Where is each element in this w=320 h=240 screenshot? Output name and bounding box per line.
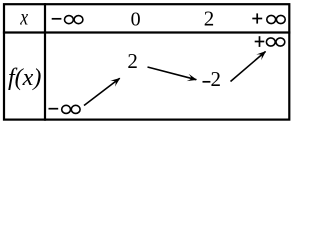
svg-text:2: 2 xyxy=(204,6,215,30)
svg-text:x: x xyxy=(19,4,28,30)
svg-text:0: 0 xyxy=(131,8,141,30)
svg-text:2: 2 xyxy=(127,49,137,73)
svg-text:f(x): f(x) xyxy=(8,65,41,91)
svg-text:2: 2 xyxy=(211,67,222,91)
